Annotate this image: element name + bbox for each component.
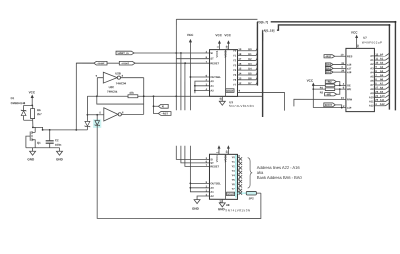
- junction: [194, 85, 196, 87]
- svg-text:D2: D2: [248, 57, 252, 61]
- svg-text:VCC1: VCC1: [215, 155, 219, 162]
- junction: [341, 107, 343, 109]
- svg-text:ST: ST: [210, 57, 214, 61]
- node ~WE flag: [325, 92, 337, 96]
- wire D4 + bus entry: [238, 67, 258, 71]
- resistor R2: [313, 88, 346, 95]
- svg-text:Y3: Y3: [233, 63, 237, 67]
- junction: [184, 62, 186, 64]
- junction (bus corner): [394, 21, 396, 23]
- svg-text:WE: WE: [347, 87, 351, 91]
- svg-text:RES: RES: [347, 54, 353, 58]
- supply VCC (pull-up rail): [307, 79, 315, 108]
- svg-text:BA1: BA1: [326, 66, 332, 70]
- wire: [32, 120, 34, 127]
- svg-text:A1: A1: [210, 190, 214, 194]
- wire D6 + bus entry: [238, 76, 258, 80]
- svg-text:~RST: ~RST: [161, 111, 168, 115]
- diode D1 CMBD4148: [11, 96, 26, 120]
- wire (U8 OUTSEL): [190, 182, 209, 184]
- wire (vertical x=176.3 upper part): [175, 19, 177, 110]
- wire (upper inverter input vertical): [96, 78, 98, 97]
- U8 pin numbers (left): [206, 156, 208, 197]
- svg-text:~reset: ~reset: [121, 61, 129, 65]
- junction: [87, 114, 89, 116]
- svg-text:C2: C2: [55, 138, 59, 142]
- svg-text:D0: D0: [248, 47, 252, 51]
- svg-text:A12: A12: [380, 102, 385, 106]
- wire: [24, 119, 33, 121]
- svg-text:Y2: Y2: [233, 58, 237, 62]
- node ~RD flag: [325, 80, 336, 84]
- bus D vertical (left drop to entries): [256, 22, 258, 86]
- wire (vertical x=180.9 lower to U8 pin): [181, 146, 210, 163]
- wire (lower inverter input): [87, 114, 103, 116]
- svg-text:D7: D7: [248, 81, 252, 85]
- ground (U8 A2): [192, 200, 200, 211]
- wire (feedback vertical x=143.7): [143, 78, 145, 115]
- U3 outputs Y0-Y7 to D bus: [233, 49, 237, 87]
- node ~reset flag (left): [94, 61, 107, 65]
- svg-text:Y7: Y7: [233, 83, 237, 87]
- bus A vertical (left drop): [262, 30, 264, 117]
- wire: [154, 105, 159, 107]
- wire (U3 A0 chain): [195, 81, 210, 93]
- wire (vertical x=184.9 upper): [184, 63, 186, 110]
- wire (source/gnd row): [26, 147, 60, 149]
- svg-text:~RD: ~RD: [326, 80, 331, 84]
- wire (VCC vertical lower part): [190, 146, 209, 192]
- svg-text:A11: A11: [380, 98, 385, 102]
- pin Y4 stub + nc cross: [237, 172, 242, 179]
- pin A4 (U7) + bus entry: [370, 69, 389, 74]
- net ~reset wire: [76, 62, 209, 64]
- svg-text:A6: A6: [370, 79, 374, 83]
- wire D3 + bus entry: [238, 62, 258, 66]
- node A (VCC/R6/D1 top): [31, 104, 33, 106]
- ground (left): [27, 148, 35, 162]
- svg-text:Y6: Y6: [233, 78, 237, 82]
- svg-text:VCC1: VCC1: [215, 50, 219, 57]
- svg-text:OUTSEL: OUTSEL: [210, 75, 221, 79]
- bus D[0..7] horizontal: [257, 21, 395, 23]
- svg-text:SOUT: SOUT: [227, 192, 235, 196]
- pin A6 (U7) + bus entry: [370, 77, 389, 82]
- svg-text:SN74LV8153N: SN74LV8153N: [229, 104, 254, 108]
- svg-text:A1: A1: [380, 57, 384, 61]
- net UART_in wire: [116, 52, 210, 54]
- capacitor C2 100n: [46, 130, 62, 148]
- junction (bus corner): [388, 24, 390, 26]
- wire (vertical from osc wire): [86, 96, 88, 115]
- wire: [335, 55, 346, 57]
- svg-text:100n: 100n: [55, 143, 62, 147]
- supply VCC (U7 top): [351, 30, 360, 48]
- diode D3 (to drain node): [85, 115, 90, 130]
- resistor R6 2k7: [31, 105, 43, 120]
- svg-text:VCC: VCC: [224, 33, 231, 37]
- svg-text:ST: ST: [210, 161, 214, 165]
- svg-text:A1: A1: [210, 84, 214, 88]
- wire (U3 OUTSEL): [190, 76, 209, 78]
- svg-text:A0: A0: [370, 54, 374, 58]
- pin 20 VCC2 (U8 top, cut supply arrow): [225, 145, 230, 154]
- svg-text:A2: A2: [210, 194, 214, 198]
- node BA0 flag: [325, 63, 333, 67]
- svg-text:~WE: ~WE: [326, 92, 332, 96]
- svg-text:Q1: Q1: [37, 141, 41, 145]
- pin A5 (U7) + bus entry: [370, 73, 389, 78]
- svg-text:VCC: VCC: [215, 33, 222, 37]
- junction: [153, 95, 155, 97]
- wire (vertical x=180.9 upper): [180, 53, 182, 110]
- wire: [337, 89, 340, 94]
- bus label D[0..7]: [258, 20, 271, 24]
- svg-text:A3: A3: [380, 65, 384, 69]
- svg-text:A9: A9: [380, 90, 384, 94]
- brace (bank address group): [248, 158, 253, 189]
- svg-text:U2B: U2B: [115, 71, 121, 75]
- junction: [175, 52, 177, 54]
- pin Y0 stub + nc cross: [237, 154, 242, 161]
- wire D7 + bus entry: [238, 81, 258, 85]
- svg-text:A11: A11: [369, 99, 374, 103]
- svg-text:A2: A2: [210, 89, 214, 93]
- wire (upper inverter output): [121, 77, 144, 79]
- svg-text:GND: GND: [56, 157, 64, 161]
- svg-text:A0: A0: [380, 52, 384, 56]
- wire (big loop down-right): [97, 128, 261, 218]
- wire (U3 SOUT dangling): [238, 92, 285, 110]
- pin A0 (U7) + bus entry: [370, 52, 389, 57]
- svg-text:Y1: Y1: [232, 160, 236, 164]
- ground (under C2): [56, 148, 64, 162]
- pin Y3 stub + nc cross: [237, 167, 242, 174]
- svg-text:CMBD4148: CMBD4148: [11, 101, 26, 105]
- svg-text:A0: A0: [210, 79, 214, 83]
- junction: [143, 95, 145, 97]
- node BOOT flag: [324, 103, 336, 107]
- svg-text:VCC: VCC: [29, 90, 36, 94]
- wire (U3 row2): [176, 58, 209, 60]
- wire (vertical x=184.9 lower to U8 RESET): [185, 146, 210, 167]
- svg-text:SN74LV8153N: SN74LV8153N: [225, 208, 250, 212]
- bus D vertical (right drop): [394, 22, 396, 111]
- svg-text:Bank Address BA6 - BA0: Bank Address BA6 - BA0: [257, 175, 303, 180]
- wire (to ~reset corner, vertical x=76.3): [76, 63, 94, 130]
- note text: address lines: [257, 165, 303, 180]
- IC U7 box: [346, 48, 375, 111]
- junction: [312, 88, 314, 90]
- svg-text:47k: 47k: [129, 91, 134, 95]
- pin A3 (U7) + bus entry: [370, 65, 389, 70]
- junction: [312, 84, 314, 86]
- wire: [24, 104, 33, 106]
- svg-text:Y5: Y5: [233, 73, 237, 77]
- node ~RST flag: [324, 54, 335, 58]
- svg-text:A4: A4: [380, 69, 384, 73]
- svg-text:R/W: R/W: [347, 97, 353, 101]
- svg-text:A7: A7: [380, 81, 384, 85]
- pin Y2 stub + nc cross: [237, 163, 242, 170]
- svg-text:U8: U8: [226, 203, 230, 207]
- node XI flag: [158, 104, 168, 108]
- U3 pin numbers (left): [206, 50, 208, 92]
- junction: [42, 129, 44, 131]
- svg-text:A9: A9: [370, 91, 374, 95]
- svg-text:A[0..19]: A[0..19]: [263, 29, 274, 33]
- wire (U8 A2 to ground): [197, 196, 209, 200]
- pin Y5 stub + nc cross: [237, 176, 242, 183]
- svg-text:OE: OE: [347, 83, 351, 87]
- wire D5 + bus entry: [238, 71, 258, 75]
- svg-text:W49F002aP: W49F002aP: [362, 40, 383, 44]
- U3 pin names (left column): [210, 50, 227, 92]
- pin 10 GND (U8): [218, 199, 225, 207]
- pin A10 (U7) + bus entry: [369, 94, 390, 99]
- svg-text:GND: GND: [192, 207, 200, 211]
- svg-text:A7: A7: [370, 83, 374, 87]
- wire (U3 A2): [195, 89, 210, 91]
- junction: [189, 182, 191, 184]
- svg-text:VCC: VCC: [351, 30, 358, 34]
- svg-text:D1: D1: [11, 96, 15, 100]
- svg-text:Y5: Y5: [232, 178, 236, 182]
- svg-text:A5: A5: [370, 75, 374, 79]
- svg-text:U2C: U2C: [109, 85, 115, 89]
- svg-text:Y4: Y4: [232, 173, 236, 177]
- svg-text:SI: SI: [210, 157, 213, 161]
- svg-text:Y6: Y6: [232, 182, 236, 186]
- wire (to XI/RST flags): [154, 96, 159, 113]
- node ~RST flag: [158, 111, 171, 115]
- svg-text:A8: A8: [380, 86, 384, 90]
- op-amp U2C (74HC04 inverter): [99, 85, 124, 121]
- svg-text:Y7: Y7: [232, 187, 236, 191]
- op-amp U2B (74HC04 inverter): [96, 71, 127, 85]
- pin a16 (U7): [341, 61, 352, 67]
- svg-text:2k7: 2k7: [37, 112, 42, 116]
- svg-text:VCC2: VCC2: [223, 50, 227, 57]
- svg-text:BA2: BA2: [326, 70, 332, 74]
- wire (loop back left and down to osc wire): [97, 96, 144, 104]
- svg-text:RESET: RESET: [210, 61, 219, 65]
- svg-text:Y0: Y0: [232, 155, 236, 159]
- wire D1 + bus entry: [238, 52, 258, 56]
- wire (VCC rail to pin a19): [313, 107, 346, 109]
- svg-text:a17: a17: [347, 66, 352, 70]
- transistor Q1 (n-mosfet): [26, 127, 41, 147]
- pin A7 (U7) + bus entry: [370, 81, 389, 86]
- svg-text:Y4: Y4: [233, 68, 237, 72]
- U8 outputs Y0-Y7 names: [232, 155, 236, 191]
- svg-text:A10: A10: [380, 94, 385, 98]
- svg-text:A2: A2: [370, 62, 374, 66]
- wire: [333, 64, 346, 66]
- svg-text:BOOT: BOOT: [325, 103, 333, 107]
- svg-text:A12: A12: [369, 104, 374, 108]
- wire (U8 A0): [190, 187, 209, 189]
- svg-text:a16: a16: [347, 63, 352, 67]
- svg-text:OUTSEL: OUTSEL: [210, 181, 221, 185]
- IC U8 SN74LV8153N box: [209, 154, 237, 199]
- svg-text:A8: A8: [370, 87, 374, 91]
- node ~reset flag (right): [119, 61, 135, 65]
- svg-text:SOUT: SOUT: [226, 89, 234, 93]
- pin A11 (U7) + bus entry: [369, 98, 389, 104]
- svg-text:D6: D6: [248, 76, 252, 80]
- diode D2 (highlighted): [93, 115, 101, 129]
- svg-text:a19: a19: [347, 106, 352, 110]
- svg-text:~reset: ~reset: [97, 61, 105, 65]
- svg-text:R2: R2: [320, 90, 324, 94]
- pin A9 (U7) + bus entry: [370, 90, 389, 95]
- wire: [336, 82, 340, 86]
- wire D2 + bus entry: [238, 57, 258, 61]
- bus A vertical (right drop): [388, 25, 390, 110]
- pin a17 (U7): [341, 65, 352, 71]
- pin A2 (U7) + bus entry: [370, 61, 389, 66]
- pin 1 VCC1 (U8 top, cut supply arrow): [215, 145, 220, 154]
- pin A1 (U7) + bus entry: [370, 57, 389, 62]
- svg-text:BA0: BA0: [326, 63, 332, 67]
- pin Y7 stub + nc cross: [237, 185, 242, 192]
- wire (JP2 to loop): [256, 192, 261, 194]
- pin RES (U7): [341, 53, 353, 59]
- wire (drain node to the right): [33, 127, 88, 130]
- wire (SOUT to JP2, highlighted): [237, 192, 246, 194]
- svg-text:A5: A5: [380, 73, 384, 77]
- pin Y1 stub + nc cross: [237, 158, 242, 165]
- nc cross (SOUT): [239, 192, 242, 195]
- junction: [339, 84, 341, 86]
- svg-text:D1: D1: [248, 52, 252, 56]
- pin A8 (U7) + bus entry: [370, 86, 389, 91]
- svg-text:A3: A3: [370, 66, 374, 70]
- svg-text:VCC: VCC: [307, 79, 314, 83]
- node UART_in flag: [116, 51, 134, 55]
- junction: [189, 187, 191, 189]
- pin OE (U7): [343, 82, 351, 88]
- junction: [194, 90, 196, 92]
- U8 pin names (left column): [210, 155, 227, 198]
- svg-text:A2: A2: [380, 61, 384, 65]
- svg-text:Y0: Y0: [233, 49, 237, 53]
- pin A12 (U7) + bus entry: [369, 102, 390, 108]
- svg-text:U7: U7: [363, 36, 367, 40]
- pin R/W (U7): [341, 96, 353, 102]
- supply VCC (middle, net to OUTSEL pins): [187, 33, 194, 110]
- wire (lower inverter output loop): [121, 113, 143, 115]
- wire (U3 A1): [195, 85, 210, 87]
- svg-text:JP2: JP2: [249, 196, 254, 200]
- junction: [96, 114, 98, 116]
- junction: [339, 88, 341, 90]
- junction: [175, 95, 177, 97]
- wire (main oscillator net): [87, 95, 262, 97]
- node BA1 flag: [325, 66, 333, 70]
- resistor R? 47k: [128, 91, 138, 98]
- wire (R/W dangling from below): [294, 99, 346, 106]
- svg-text:74HC04: 74HC04: [116, 81, 127, 85]
- pin 20 VCC2 (top): [225, 40, 230, 49]
- bus label A[0..19]: [263, 28, 277, 32]
- pin 10 GND (U3): [219, 96, 226, 105]
- highlighted net (cyan vertical in U8): [235, 155, 237, 198]
- svg-text:RESET: RESET: [210, 164, 219, 168]
- wire (top link to D bus corner): [176, 18, 257, 20]
- svg-text:GND: GND: [27, 157, 35, 161]
- svg-text:VCC: VCC: [187, 33, 194, 37]
- svg-text:D4: D4: [248, 67, 252, 71]
- svg-text:A1: A1: [370, 58, 374, 62]
- IC U3 SN74LV8153N box: [210, 50, 238, 97]
- svg-text:74HC04: 74HC04: [107, 90, 118, 94]
- pin Y6 stub + nc cross: [237, 181, 242, 188]
- svg-text:D5: D5: [248, 71, 252, 75]
- wire: [333, 67, 346, 69]
- pin WE (U7): [343, 86, 352, 92]
- wire: [335, 105, 341, 108]
- svg-text:Y1: Y1: [233, 54, 237, 58]
- svg-text:VCC2: VCC2: [223, 155, 227, 162]
- pin a19 (U7): [343, 104, 352, 110]
- pin SOUT (U3): [226, 89, 241, 93]
- svg-text:A6: A6: [380, 77, 384, 81]
- junction: [32, 126, 34, 128]
- junction: [49, 129, 51, 131]
- resistor R1: [313, 84, 346, 90]
- junction: [190, 76, 192, 78]
- svg-text:A0: A0: [210, 186, 214, 190]
- svg-text:XI: XI: [162, 104, 165, 108]
- svg-text:D3: D3: [248, 62, 252, 66]
- svg-text:D[0..7]: D[0..7]: [259, 20, 268, 24]
- bus A[0..19] horizontal: [263, 25, 390, 30]
- svg-text:~RST: ~RST: [325, 54, 332, 58]
- wire D0 + bus entry: [238, 47, 258, 51]
- node BA2 flag: [325, 70, 333, 74]
- svg-text:Y2: Y2: [232, 164, 236, 168]
- svg-text:SI: SI: [210, 51, 213, 55]
- junction: [180, 52, 182, 54]
- jumper JP2: [246, 191, 256, 200]
- svg-text:A4: A4: [370, 70, 374, 74]
- supply VCC (left): [29, 90, 36, 105]
- wire: [333, 71, 346, 73]
- junction: [75, 129, 77, 131]
- svg-text:a18: a18: [347, 70, 352, 74]
- svg-text:UART_in: UART_in: [118, 51, 129, 55]
- svg-text:A10: A10: [369, 95, 374, 99]
- pin a18 (U7): [341, 69, 352, 75]
- pin SOUT (U8): [227, 190, 240, 197]
- junction: [153, 105, 155, 107]
- wire (vertical x=176.3 lower part to U8 pin1): [176, 146, 209, 160]
- pin 1 VCC1 (top): [216, 40, 221, 49]
- svg-text:Y3: Y3: [232, 169, 236, 173]
- junction: [96, 95, 98, 97]
